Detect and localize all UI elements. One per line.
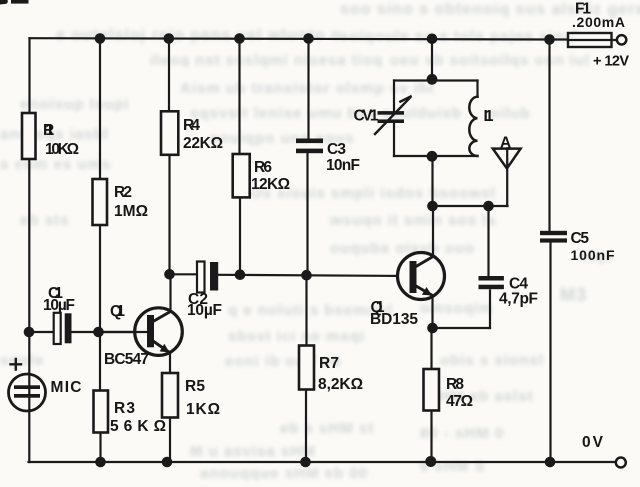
svg-text:R4: R4 (183, 117, 200, 134)
svg-text:CV1: CV1 (354, 108, 379, 125)
svg-text:R1: R1 (43, 122, 54, 139)
svg-text:R5: R5 (185, 378, 205, 395)
svg-text:1MΩ: 1MΩ (114, 203, 148, 220)
svg-text:R7: R7 (319, 355, 339, 372)
svg-text:R8: R8 (446, 376, 464, 393)
svg-text:12KΩ: 12KΩ (251, 176, 290, 193)
svg-text:Q1: Q1 (110, 303, 125, 320)
svg-text:C3: C3 (327, 141, 346, 158)
svg-text:R6: R6 (254, 159, 272, 176)
svg-text:L1: L1 (484, 108, 494, 125)
svg-text:10KΩ: 10KΩ (45, 141, 79, 158)
svg-text:BC547: BC547 (104, 351, 149, 368)
svg-text:0V: 0V (582, 434, 604, 451)
svg-text:R3: R3 (114, 400, 135, 417)
svg-text:8,2KΩ: 8,2KΩ (318, 376, 363, 393)
svg-text:10µF: 10µF (43, 297, 75, 314)
svg-text:A: A (500, 135, 511, 152)
svg-text:MIC: MIC (51, 379, 82, 396)
svg-text:22KΩ: 22KΩ (183, 135, 223, 152)
svg-text:.200mA: .200mA (572, 14, 625, 30)
svg-text:100nF: 100nF (571, 247, 615, 263)
svg-text:BD135: BD135 (370, 311, 418, 328)
svg-text:R2: R2 (114, 184, 132, 201)
svg-text:47Ω: 47Ω (446, 393, 473, 410)
svg-text:4,7pF: 4,7pF (499, 291, 538, 308)
svg-text:1KΩ: 1KΩ (186, 401, 220, 418)
svg-text:10µF: 10µF (187, 302, 222, 319)
svg-text:56KΩ: 56KΩ (110, 418, 166, 435)
svg-text:+ 12V: + 12V (593, 53, 629, 69)
svg-text:10nF: 10nF (326, 157, 360, 174)
svg-text:C5: C5 (571, 230, 590, 247)
